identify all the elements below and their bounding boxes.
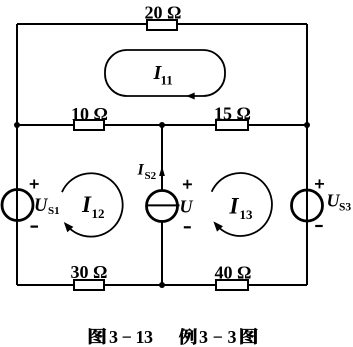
resistor 40 ohm xyxy=(215,263,252,291)
svg-text:3 − 13: 3 − 13 xyxy=(109,327,153,347)
node C junction dot xyxy=(14,122,20,128)
wire top: node A to node B xyxy=(17,23,307,25)
svg-text:30 Ω: 30 Ω xyxy=(71,262,108,282)
resistor 15 ohm xyxy=(214,104,251,131)
current source IS2 xyxy=(137,162,194,228)
resistor 20 ohm xyxy=(145,3,182,31)
svg-text:13: 13 xyxy=(240,207,254,222)
svg-text:20 Ω: 20 Ω xyxy=(145,3,182,23)
wire middle branch upper xyxy=(161,125,163,190)
voltage source US3 xyxy=(292,179,352,226)
svg-text:40 Ω: 40 Ω xyxy=(215,263,252,283)
mesh current I13 loop xyxy=(212,173,272,236)
caption hanzi tu (figure) xyxy=(89,328,106,344)
resistor 10 ohm xyxy=(71,104,108,130)
voltage source US1 xyxy=(2,180,60,227)
caption hanzi tu 2 xyxy=(241,328,258,344)
svg-text:11: 11 xyxy=(161,73,173,88)
node D junction dot xyxy=(304,122,310,128)
wire right branch through US3 xyxy=(306,24,308,285)
svg-text:U: U xyxy=(180,197,194,217)
svg-text:3 − 3: 3 − 3 xyxy=(199,327,237,347)
svg-text:15 Ω: 15 Ω xyxy=(214,104,251,124)
node E junction dot xyxy=(159,122,165,128)
wire middle branch lower xyxy=(161,222,163,285)
svg-text:S2: S2 xyxy=(145,170,157,182)
svg-text:I: I xyxy=(137,162,145,179)
svg-text:S1: S1 xyxy=(48,205,60,217)
caption hanzi li (example) xyxy=(179,328,197,344)
svg-text:12: 12 xyxy=(92,206,105,221)
svg-text:U: U xyxy=(34,196,49,216)
svg-text:10 Ω: 10 Ω xyxy=(71,104,108,124)
mesh current I11 loop xyxy=(105,50,225,100)
svg-text:I: I xyxy=(229,194,240,219)
resistor 30 ohm xyxy=(71,262,108,290)
wire middle: node C to node D xyxy=(17,124,307,126)
mesh current I12 loop xyxy=(62,173,123,236)
svg-text:S3: S3 xyxy=(339,202,351,214)
wire left branch through US1 xyxy=(16,24,18,285)
wire bottom xyxy=(17,284,307,286)
node F junction dot xyxy=(159,282,165,288)
svg-text:I: I xyxy=(81,192,92,217)
